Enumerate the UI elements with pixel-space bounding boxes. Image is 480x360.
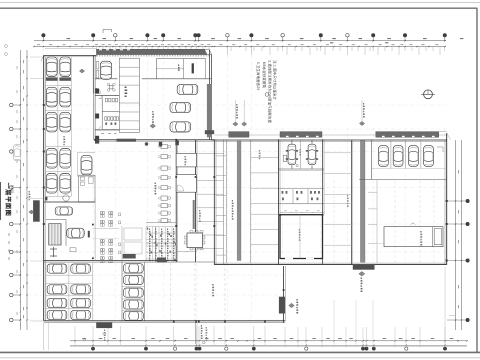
small rooms above middle parking column — [124, 228, 142, 240]
left parking bay lines — [44, 57, 46, 197]
right bay car 3 — [409, 146, 419, 167]
bottom parking row 3 car B — [71, 298, 91, 307]
bottom extension lines through yard — [284, 327, 286, 347]
bottom extension lines — [74, 326, 76, 345]
middle column car 2 — [124, 275, 144, 284]
top dimension ticks line A — [43, 40, 45, 42]
left entrance diamond marker — [29, 210, 34, 214]
bottom dimension number specks — [82, 338, 86, 340]
left block corner chamfer — [41, 56, 44, 61]
workshop top light line under bands — [214, 134, 446, 136]
service corridor wall right — [195, 140, 197, 232]
top room right wall — [205, 59, 207, 79]
row grid axes horizontal dashed lines — [27, 105, 447, 320]
workshop top band segment B — [280, 132, 322, 138]
lift bay left wall heavy — [278, 139, 280, 264]
toilet block walls — [95, 94, 119, 96]
left wall entrance canopy dark strip — [33, 200, 40, 221]
awning line above left block — [45, 47, 97, 49]
marks along x122 wall — [119, 213, 121, 216]
car waiting outside left — [14, 144, 21, 160]
middle column car 5 — [124, 311, 144, 320]
top dimension ticks and specks line B — [33, 46, 34, 47]
general notes rotated text block — [256, 60, 277, 123]
reception desk rects top-left room — [96, 62, 99, 70]
cells label specks — [259, 150, 260, 152]
yard wall dark entrance strip — [279, 297, 285, 314]
paint booth heavy walled room — [280, 215, 323, 259]
car beside interior stair — [67, 228, 84, 238]
showroom floor elevation diamond — [150, 124, 156, 128]
service advisor desks group 1 — [161, 145, 168, 149]
reception dark blob — [159, 142, 162, 147]
central corridor wall — [350, 141, 352, 265]
car wash room — [384, 227, 443, 247]
bottom parking row 2 car B — [71, 285, 91, 294]
workshop left wall — [213, 139, 215, 264]
lift car 2 — [306, 150, 318, 152]
rear wall corner dark block — [205, 130, 214, 134]
entrance mats under top car row — [46, 77, 58, 80]
top room outline walls — [155, 59, 157, 79]
left parking car row 3 car A — [46, 112, 57, 132]
second room in corridor — [176, 175, 196, 193]
dark door block above middle column — [123, 254, 136, 259]
interior stair hatched rect — [49, 224, 61, 245]
workshop office cells column wall — [225, 141, 227, 264]
middle parking column walls — [121, 262, 123, 321]
yard entrance rotated label — [296, 299, 297, 301]
waiting area label specks — [155, 183, 156, 185]
right grid bubbles with stems — [466, 199, 469, 202]
room walls around interior stair — [46, 219, 66, 221]
service advisor desks group 2 — [161, 196, 168, 200]
left dimension extra ticks — [26, 56, 27, 57]
bottom parking row 3 car A — [47, 298, 67, 307]
top grid bubbles with stems — [42, 34, 45, 37]
left dimension line inner — [26, 50, 28, 330]
right bay bottom line — [359, 179, 447, 181]
aisle entrance diamond — [79, 69, 84, 73]
right bay front line — [371, 168, 446, 170]
svg-text:注:1.图中尺寸均以毫米计: 注:1.图中尺寸均以毫米计 — [273, 60, 278, 100]
top room inner line — [156, 68, 183, 70]
showroom band end cap parallelogram — [205, 49, 212, 54]
small dark post at showroom wall — [95, 139, 99, 144]
small circle at bay bottom — [296, 164, 298, 166]
bottom dimension line upper — [70, 340, 467, 342]
bottom threshold marker circle — [103, 333, 106, 336]
parts storage shelf marks — [147, 228, 148, 230]
top dimension line B — [34, 46, 446, 48]
central hatched wall strip tall — [360, 141, 365, 262]
right bay car dividers — [390, 139, 392, 168]
workshop bottom threshold dark — [353, 264, 375, 269]
column blob near waiting area — [145, 142, 148, 145]
paint booth centre label specks — [299, 229, 300, 231]
toilet fixtures row 2 — [105, 117, 107, 121]
lift bay bottom wall — [279, 168, 325, 170]
bottom dimension ticks — [92, 340, 94, 342]
svg-text:M5水泥砂浆砌筑: M5水泥砂浆砌筑 — [262, 62, 267, 89]
middle column car 3 — [124, 288, 144, 297]
hall light column lines — [170, 263, 172, 321]
right side small bracket — [437, 147, 443, 152]
small label between parking rows — [63, 136, 64, 138]
mini dimension row in service area — [178, 251, 196, 253]
sheet frame inner top line — [0, 7, 477, 9]
left parking car row 1 car B — [60, 57, 71, 77]
lift bay right wall — [322, 139, 324, 264]
service cells column walls — [223, 140, 225, 264]
right bay car 1 — [379, 146, 389, 167]
entrance diamond marker 3 — [359, 121, 364, 125]
showroom front dark wall band — [97, 49, 210, 54]
notes circled reference mark — [265, 93, 269, 97]
top dimension line A — [34, 40, 446, 42]
washroom fixtures — [282, 191, 284, 194]
left block top wall — [44, 54, 97, 56]
bottom dimension chain line lower — [70, 344, 467, 346]
manager room in corridor — [176, 153, 196, 167]
paint booth door marks — [285, 258, 293, 260]
right floor light lines — [377, 242, 384, 244]
paint booth centre line — [299, 215, 301, 259]
seat area divider lines — [93, 228, 120, 230]
corridor label text — [199, 210, 200, 212]
top room dark bar — [192, 63, 194, 73]
lounge bay car — [81, 155, 92, 174]
lift car 1 — [286, 150, 298, 152]
middle cells label specks — [347, 195, 348, 197]
toolbox beside lift 1 — [283, 155, 286, 161]
showroom top rooms dividing wall — [95, 78, 117, 80]
showroom display car 2 — [170, 102, 191, 112]
parking hall top wall — [44, 260, 177, 262]
workshop top band segment C — [376, 132, 439, 138]
car near left entrance — [55, 207, 72, 215]
workshop second cells column wall — [250, 141, 252, 264]
toilet door arcs — [99, 95, 102, 98]
lift bay centre divider — [300, 140, 302, 170]
bottom wall junction ticks — [173, 320, 175, 323]
car wash label — [420, 231, 421, 233]
entrance diamond marker 2 — [242, 122, 247, 126]
wall leader lines below hall — [195, 323, 197, 345]
left parking car row 5 car B — [60, 174, 71, 194]
left parking car row 1 car A — [46, 57, 57, 77]
dark block on hall top wall — [157, 258, 166, 263]
right dimension number specks — [458, 170, 460, 173]
toilet block bottom dim specks — [101, 133, 104, 135]
right dimension line inner — [455, 140, 457, 330]
band B white notches — [286, 136, 289, 137]
right floor light column lines — [333, 180, 335, 263]
band C white notches — [382, 136, 385, 137]
bottom grid bubbles — [91, 347, 94, 350]
section reference circle — [424, 90, 433, 99]
wall left of small rooms — [121, 226, 123, 262]
workshop threshold rotated label — [361, 278, 362, 280]
right dimension line outer — [461, 140, 463, 330]
bottom-left corner extension lines — [43, 323, 45, 350]
console table near interior stair — [70, 248, 76, 252]
workshop top wall — [211, 139, 446, 141]
hatched strip label specks — [232, 200, 233, 202]
door arc service corridor — [178, 185, 184, 191]
rear wall dark segment — [117, 139, 137, 142]
parts block extra wall lines — [146, 222, 176, 224]
wall junction dots — [175, 176, 177, 178]
toilet room beside parking — [79, 175, 95, 202]
workshop second cells lines — [251, 157, 279, 159]
meeting table with chairs — [187, 233, 203, 248]
yard entrance diamond — [289, 303, 295, 307]
left parking car row 3 car B — [60, 112, 71, 132]
sheet frame right line — [476, 8, 478, 352]
left dimension line outer — [19, 50, 21, 330]
left parking car row 4 car B — [60, 149, 71, 169]
axis callout bracket near grid bubble — [103, 30, 112, 34]
car ramp label — [125, 87, 127, 89]
entry table and chairs cluster — [110, 86, 113, 89]
left margin tiny dimension text — [8, 233, 10, 236]
junction dots on seat area wall — [92, 224, 94, 226]
left wall axis piers — [43, 104, 45, 106]
left entrance rotated label — [29, 191, 30, 193]
showroom rear wall — [95, 139, 214, 141]
top extension lines hanging below chain — [96, 47, 98, 56]
middle cells column lines — [324, 152, 351, 154]
bottom wall threshold dark — [96, 322, 112, 328]
right wall axis piers — [446, 200, 448, 202]
bottom longer extension lines — [333, 300, 335, 347]
car ramp outline — [119, 58, 139, 132]
bottom parking row 1 car A — [47, 264, 67, 273]
wall continuation below lounge — [94, 198, 96, 260]
bottom parking row 4 car B — [71, 310, 91, 319]
left dimension number specks — [23, 60, 25, 63]
title underline — [0, 182, 2, 220]
left parking car row 4 car A — [46, 149, 57, 169]
entrance diamond marker 1 — [233, 122, 238, 126]
workshop bottom wall — [214, 264, 446, 266]
service corridor wall left — [175, 140, 177, 262]
left outer small circles — [5, 45, 8, 48]
bottom parking row 2 car A — [47, 285, 67, 294]
wall below parking columns — [44, 201, 95, 203]
bottom parking bay lines — [45, 263, 47, 321]
column grid axes vertical dashed lines — [43, 48, 444, 321]
marks above car wash room — [410, 224, 411, 225]
wall pier at corridor top — [175, 141, 179, 146]
top dimension number specks above line A — [67, 38, 71, 40]
hall bottom exterior wall — [44, 320, 286, 322]
sheet frame inner bottom line — [0, 351, 480, 353]
right bay car 4 — [424, 146, 434, 167]
left grid bubbles with stems — [10, 103, 13, 106]
wall piers dark squares — [95, 89, 99, 94]
left parking car row 2 car A — [46, 87, 57, 107]
sheet frame outer top line — [0, 2, 480, 4]
service corridor hatched strip — [193, 200, 195, 229]
showroom right wall double line — [208, 50, 210, 140]
workshop threshold diamond — [359, 272, 365, 277]
ramp exit text cluster — [201, 325, 202, 327]
middle column car 4 — [124, 300, 144, 309]
workshop hatched wall strip — [237, 141, 241, 261]
middle column car 1 — [124, 264, 144, 273]
showroom left interior wall — [92, 55, 94, 93]
right bay car 2 — [393, 146, 403, 167]
showroom right wall hatched fill — [207, 84, 212, 137]
showroom entrance door arc — [95, 88, 100, 93]
hall floor level text — [212, 284, 213, 286]
workshop top-right roof diagonal — [447, 133, 451, 139]
lounge bay lines — [78, 151, 96, 153]
big circle fixture in room — [63, 195, 69, 201]
wall pier bottom-left corner room — [45, 197, 47, 201]
yard left wall — [283, 266, 285, 323]
wheel alignment lift symbol 1 — [50, 247, 57, 257]
toilet fixtures row 1 — [106, 98, 108, 102]
right floor narrow cells column — [376, 180, 378, 264]
left chain extra tick marks — [20, 61, 21, 62]
svg-text:1:100: 1:100 — [10, 185, 14, 193]
interior dimension row under cells — [280, 212, 324, 214]
car in showroom entry bay — [100, 61, 111, 79]
workshop right wall — [446, 133, 448, 265]
right chain bottom hook — [449, 315, 456, 317]
bottom parking row 4 car A — [47, 310, 67, 319]
washroom cells under lift bay — [279, 188, 325, 190]
right wall extension to bottom chain — [444, 267, 446, 347]
showroom band battlement notches — [99, 49, 102, 50]
bay centre dim specks — [299, 149, 300, 151]
left outside extension lines — [30, 56, 44, 58]
right bay left wall — [370, 139, 372, 179]
car wash inner rect — [434, 229, 442, 245]
dark bar right of interior car — [88, 231, 90, 238]
left exterior wall — [43, 55, 45, 320]
parts storage dense block grid — [146, 226, 176, 228]
showroom display car 1 — [177, 84, 198, 94]
car ramp transverse lines — [119, 66, 139, 68]
training seats grid — [100, 212, 102, 215]
bottom parking row 1 car B — [71, 264, 91, 273]
top room small symbol specks — [178, 65, 179, 67]
bottom small circled note — [83, 338, 86, 341]
showroom display car 3 — [170, 122, 191, 132]
car wash inner divider — [432, 227, 434, 247]
left parking car row 2 car B — [60, 87, 71, 107]
svg-text:2.墙体除注明外均为240厚加气砼砌块墙: 2.墙体除注明外均为240厚加气砼砌块墙 — [268, 60, 273, 123]
parts storage tiny text noise — [149, 229, 150, 231]
svg-text:3.卫生间地面低20: 3.卫生间地面低20 — [256, 62, 261, 91]
showroom diamond rotated label — [152, 111, 153, 113]
sheet frame outer bottom line — [0, 357, 480, 359]
workshop top band segment A — [229, 132, 249, 138]
curtain wall dotted line under band — [97, 55, 210, 57]
left parking car row 5 car A — [46, 174, 57, 194]
workshop office cells lines — [216, 155, 226, 157]
